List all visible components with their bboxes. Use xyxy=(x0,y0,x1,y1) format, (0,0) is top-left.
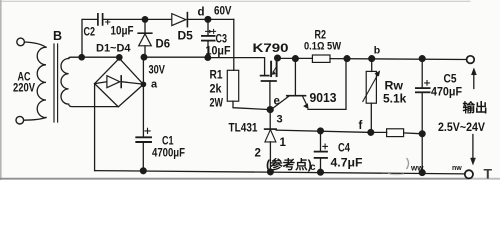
terminal AC top xyxy=(17,38,25,46)
node f junction Rw bottom xyxy=(368,130,374,136)
wire R1 bottom to node e xyxy=(233,101,270,109)
mosfet K790 gate plate xyxy=(261,75,269,77)
wire f rail to divider xyxy=(371,131,387,133)
wire AC bottom lead xyxy=(24,117,46,120)
potentiometer Rw arrow xyxy=(363,75,378,101)
node junction C3 bottom xyxy=(205,55,211,61)
node junction secondary/C2 xyxy=(79,55,84,60)
resistor R1 box xyxy=(227,70,238,101)
wire R2 right to b rail xyxy=(330,58,467,61)
output arrow upper xyxy=(473,73,475,89)
svg-text:4700μF: 4700μF xyxy=(152,146,185,160)
mosfet K790 source plate and stem xyxy=(262,80,277,82)
capacitor C2 polarity plus xyxy=(106,20,110,24)
wire bridge right corner riser / C1 lead xyxy=(142,57,144,136)
node junction 9013 base riser xyxy=(293,56,299,62)
TL431 anode lead xyxy=(269,142,271,172)
diode D5 xyxy=(172,14,186,26)
svg-text:1: 1 xyxy=(280,137,287,149)
svg-text:Rw: Rw xyxy=(385,79,404,93)
potentiometer Rw lead bottom xyxy=(370,103,372,132)
svg-text:b: b xyxy=(374,45,380,57)
svg-text:2k: 2k xyxy=(210,82,222,96)
wire drain rail to R2 xyxy=(278,57,313,59)
node junction C1 ground xyxy=(140,168,146,174)
potentiometer Rw lead top xyxy=(371,59,373,72)
terminal output plus xyxy=(467,56,475,64)
svg-text:0.1Ω 5W: 0.1Ω 5W xyxy=(304,41,342,53)
mosfet K790 channel bars xyxy=(270,62,272,76)
svg-text:9013: 9013 xyxy=(310,91,337,105)
node junction C5 bottom xyxy=(419,131,425,137)
transistor 9013 base bar xyxy=(287,95,306,97)
svg-text:2.5V~24V: 2.5V~24V xyxy=(438,122,485,134)
svg-text:输出: 输出 xyxy=(463,100,488,115)
svg-text:2W: 2W xyxy=(210,96,224,110)
svg-text:60V: 60V xyxy=(214,6,232,18)
capacitor C4 polarity plus xyxy=(323,144,328,149)
output arrow lower xyxy=(472,135,474,159)
ground rail xyxy=(95,171,465,174)
mosfet K790 substrate arrow xyxy=(273,68,276,72)
svg-text:D6: D6 xyxy=(156,37,171,51)
terminal output minus xyxy=(465,170,473,178)
resistor R2 box xyxy=(312,55,330,62)
svg-text:D1~D4: D1~D4 xyxy=(96,43,131,55)
TL431 symbol xyxy=(265,128,276,130)
capacitor C5 xyxy=(416,87,430,89)
capacitor C1 xyxy=(136,136,151,138)
svg-text:C4: C4 xyxy=(338,141,350,155)
svg-text:470μF: 470μF xyxy=(431,85,462,99)
svg-text:C5: C5 xyxy=(444,72,457,86)
node d junction xyxy=(205,17,211,23)
svg-text:R2: R2 xyxy=(315,28,327,42)
svg-text:C2: C2 xyxy=(84,25,96,39)
terminal AC bottom xyxy=(16,116,24,124)
capacitor C5 lead xyxy=(421,59,423,88)
svg-text:30V: 30V xyxy=(149,65,166,77)
svg-text:4.7μF: 4.7μF xyxy=(331,156,363,170)
resistor divider box xyxy=(387,129,404,137)
node junction R2 right xyxy=(344,56,350,62)
wire secondary top lead xyxy=(69,57,120,58)
svg-text:(参考点): (参考点) xyxy=(266,157,312,172)
transformer B secondary winding xyxy=(61,59,69,105)
svg-text:220V: 220V xyxy=(13,83,35,95)
wire bridge left corner to ground rail xyxy=(94,84,96,171)
node junction C4 top xyxy=(318,128,324,134)
transformer B core xyxy=(54,44,58,122)
node junction C5 top xyxy=(419,56,425,62)
wire D5 to node d xyxy=(187,18,233,20)
capacitor C3 xyxy=(207,19,209,35)
border left edge xyxy=(0,0,2,180)
svg-text:d: d xyxy=(198,7,205,19)
capacitor C3 polarity mark xyxy=(206,29,216,33)
watermark remnant squiggle xyxy=(388,174,404,175)
svg-text:TL431: TL431 xyxy=(229,121,258,135)
capacitor C2 xyxy=(98,14,103,25)
node junction D6 top xyxy=(142,17,148,23)
svg-text:T: T xyxy=(484,166,493,181)
svg-text:ww: ww xyxy=(410,164,424,173)
border top edge xyxy=(0,0,470,2)
svg-text:nw: nw xyxy=(452,165,462,172)
svg-text:a: a xyxy=(151,79,158,91)
svg-text:R1: R1 xyxy=(210,68,223,82)
svg-text:K790: K790 xyxy=(253,43,289,55)
TL431 cathode lead xyxy=(269,110,271,129)
node bridge AC1 top corner xyxy=(117,55,122,60)
wire TL431 ref to f rail xyxy=(276,130,371,132)
node bridge right corner xyxy=(141,82,145,86)
transformer B primary winding xyxy=(37,47,46,117)
transistor 9013 base lead xyxy=(294,59,296,96)
wire secondary bottom lead to bridge AC2 xyxy=(69,104,119,107)
capacitor C1 polarity plus xyxy=(145,128,150,133)
svg-text:e: e xyxy=(274,96,280,108)
wire C2 to D5 xyxy=(103,18,172,20)
bridge rectifier D1~D4 diamond xyxy=(95,58,144,107)
svg-text:5.1k: 5.1k xyxy=(383,92,407,106)
node e junction xyxy=(267,107,273,113)
svg-text:c: c xyxy=(310,162,316,173)
potentiometer Rw box xyxy=(366,71,376,103)
wire divider to C5 bottom node xyxy=(404,132,423,135)
border bottom edge xyxy=(0,178,468,180)
wire a-rail to K790 gate xyxy=(144,56,208,58)
svg-text:10μF: 10μF xyxy=(206,44,231,58)
node junction C5 ground xyxy=(419,170,425,176)
transistor 9013 emitter with arrow xyxy=(303,96,307,104)
capacitor C4 xyxy=(320,131,322,151)
wire C5 bottom to ground xyxy=(421,134,423,173)
svg-text:2: 2 xyxy=(255,148,261,160)
svg-text:3: 3 xyxy=(277,114,283,126)
capacitor C5 polarity plus xyxy=(425,81,430,86)
transistor 9013 collector xyxy=(272,96,289,109)
svg-text:10μF: 10μF xyxy=(111,24,134,38)
node junction C4 ground xyxy=(318,169,324,175)
watermark remnant curl xyxy=(407,158,409,169)
bridge internal diode xyxy=(95,82,107,84)
wire AC top lead xyxy=(25,42,47,47)
wire emitter to R2 right riser xyxy=(308,61,346,109)
wire C2 left lead xyxy=(82,19,97,57)
diode D6 xyxy=(144,19,146,32)
svg-text:D5: D5 xyxy=(178,29,194,43)
wire d to R1 top xyxy=(233,19,235,70)
node a junction (bridge + rail) xyxy=(141,54,147,60)
node drain dot xyxy=(275,55,281,61)
node junction Rw top (b) xyxy=(369,56,375,62)
svg-text:f: f xyxy=(359,120,363,132)
node junction TL431 ground xyxy=(268,169,274,175)
svg-text:B: B xyxy=(53,29,62,43)
